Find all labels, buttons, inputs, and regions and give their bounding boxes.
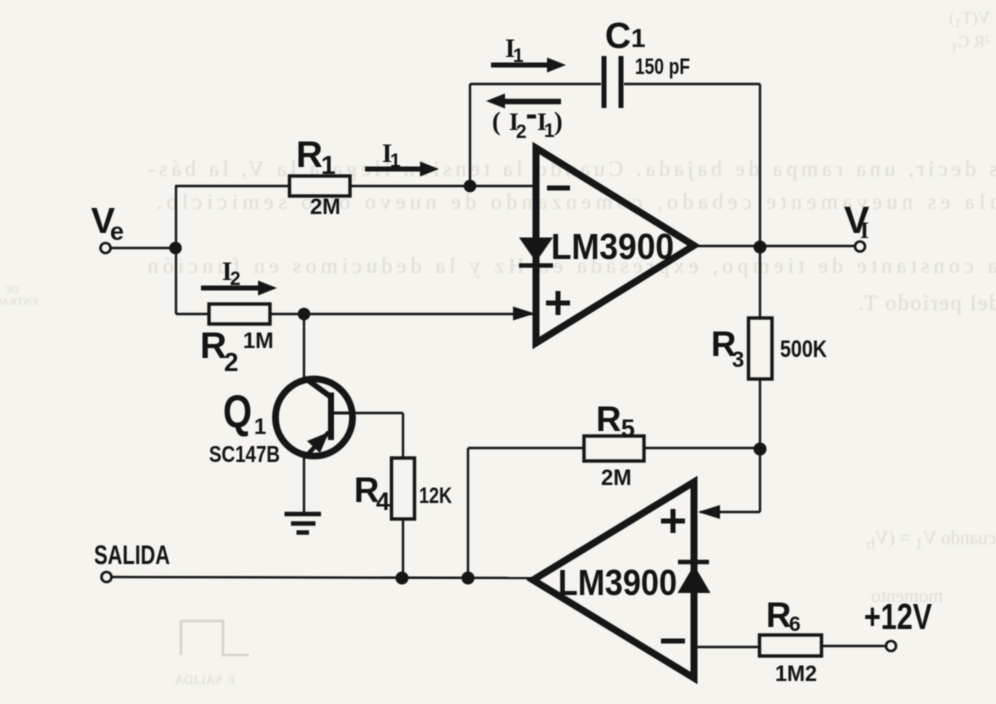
svg-text:R: R (296, 134, 323, 175)
svg-text:12K: 12K (419, 483, 452, 508)
svg-text:150 pF: 150 pF (635, 54, 690, 79)
svg-text:(: ( (492, 107, 501, 136)
svg-text:1: 1 (631, 23, 645, 53)
svg-text:2: 2 (516, 122, 527, 143)
svg-text:): ) (554, 107, 563, 136)
svg-text:1: 1 (321, 150, 335, 180)
svg-text:2M: 2M (310, 194, 341, 219)
svg-text:2M: 2M (601, 465, 632, 490)
svg-text:3: 3 (732, 347, 744, 372)
svg-text:R: R (200, 325, 227, 366)
svg-text:e: e (110, 218, 124, 246)
svg-text:6: 6 (789, 613, 801, 636)
svg-text:R: R (596, 400, 621, 439)
svg-text:SALIDA: SALIDA (94, 540, 170, 570)
svg-text:2: 2 (224, 347, 238, 377)
svg-text:4: 4 (376, 488, 390, 516)
svg-text:5: 5 (621, 415, 635, 443)
svg-text:I: I (860, 218, 869, 243)
svg-text:1M: 1M (243, 328, 274, 353)
svg-text:1: 1 (254, 414, 266, 439)
svg-text:1: 1 (513, 46, 524, 67)
svg-text:R: R (766, 596, 791, 635)
svg-text:2: 2 (230, 269, 241, 290)
svg-text:LM3900: LM3900 (551, 226, 674, 267)
svg-text:500K: 500K (780, 336, 828, 363)
svg-text:+12V: +12V (864, 596, 932, 637)
svg-text:Q: Q (223, 386, 252, 438)
svg-text:C: C (605, 15, 631, 56)
svg-text:SC147B: SC147B (209, 441, 280, 467)
svg-text:1: 1 (390, 151, 401, 172)
svg-text:LM3900: LM3900 (558, 562, 677, 603)
svg-text:1M2: 1M2 (775, 661, 817, 686)
